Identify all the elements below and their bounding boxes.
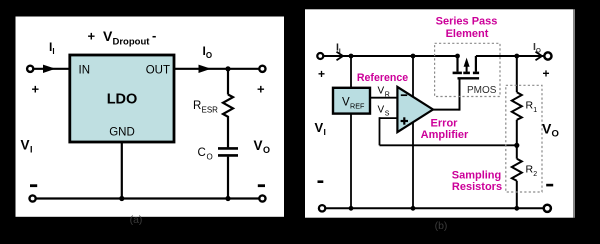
node amp supply junction	[411, 54, 416, 59]
sampling resistors dashed box	[506, 85, 542, 192]
label V_S	[378, 105, 390, 118]
wire input to LDO IN	[34, 68, 71, 70]
wire feedback V_S vertical behind amp	[412, 56, 414, 208]
resistor R2	[512, 159, 522, 181]
op-amp error amplifier	[397, 87, 433, 132]
svg-text:Dropout: Dropout	[113, 37, 151, 48]
svg-text:R: R	[526, 100, 534, 112]
amp - input mark	[401, 94, 407, 96]
svg-text:V: V	[378, 86, 385, 97]
svg-text:(b): (b)	[435, 220, 448, 232]
svg-text:+: +	[257, 82, 265, 97]
svg-text:+: +	[543, 67, 550, 81]
label V_I (b)	[315, 120, 326, 137]
series pass dashed box	[435, 43, 500, 96]
reference V_REF box	[333, 88, 370, 114]
label R_1	[526, 100, 538, 115]
node C_O junction	[225, 196, 230, 201]
svg-text:(a): (a)	[130, 214, 143, 226]
label - (right, a)	[258, 184, 265, 187]
ground terminal right (b)	[544, 205, 551, 212]
label V_O (b)	[542, 121, 559, 140]
panel (b) background	[305, 9, 573, 217]
label R_ESR	[193, 100, 218, 115]
node V_REF supply junction	[349, 54, 354, 59]
node amp ground junction	[411, 206, 416, 211]
amp + input mark	[401, 117, 408, 124]
node R2 ground junction	[514, 206, 519, 211]
svg-text:O: O	[207, 153, 213, 162]
label V_O (a)	[254, 138, 271, 155]
transistor PMOS Q1	[453, 56, 480, 78]
svg-text:Amplifier: Amplifier	[421, 129, 469, 141]
wire output node down to R1	[516, 56, 518, 92]
label I_I (b)	[336, 42, 341, 56]
ground terminal left (a)	[29, 195, 35, 201]
svg-text:O: O	[263, 145, 270, 155]
label V_Dropout	[88, 28, 157, 48]
output terminal (a)	[259, 66, 265, 72]
svg-text:+: +	[318, 67, 325, 81]
svg-text:S: S	[385, 111, 390, 118]
capacitor C_O	[218, 148, 238, 155]
svg-text:V: V	[542, 121, 552, 137]
svg-text:V: V	[315, 120, 324, 135]
svg-text:Resistors: Resistors	[452, 181, 502, 193]
svg-text:R: R	[526, 164, 534, 176]
label R_2	[526, 164, 538, 179]
svg-text:1: 1	[533, 107, 537, 114]
label I_I (a)	[49, 40, 55, 56]
input terminal (a)	[27, 66, 33, 72]
label C_O	[198, 147, 213, 162]
label I_O (a)	[203, 44, 213, 60]
svg-text:Error: Error	[431, 118, 459, 130]
node R1/R2 junction	[514, 143, 519, 148]
svg-text:Series Pass: Series Pass	[436, 16, 498, 28]
svg-text:V: V	[103, 28, 113, 44]
resistor R_ESR	[223, 95, 233, 119]
label I_O (b)	[533, 41, 541, 55]
wire amp output to gate	[433, 78, 460, 111]
label - (left, b)	[318, 180, 324, 183]
svg-text:V: V	[254, 138, 263, 153]
wire R_ESR to C_O	[227, 118, 229, 147]
svg-text:PMOS: PMOS	[467, 85, 497, 96]
label - (left, a)	[30, 184, 37, 187]
svg-text:V: V	[342, 97, 350, 109]
wire LDO OUT to output node	[174, 68, 259, 70]
svg-text:R: R	[385, 92, 390, 99]
svg-text:2: 2	[533, 171, 537, 178]
ground terminal left (b)	[319, 205, 325, 211]
resistor R1	[512, 92, 522, 120]
svg-text:IN: IN	[79, 65, 91, 77]
label Error Amplifier	[421, 118, 469, 141]
input rail (b)	[324, 55, 458, 57]
input terminal (b)	[317, 53, 323, 59]
label Sampling Resistors	[452, 170, 502, 194]
label V_R	[378, 86, 390, 99]
LDO block U1	[70, 55, 174, 142]
wire R1 to node	[516, 120, 518, 146]
svg-text:+: +	[88, 29, 96, 44]
svg-text:C: C	[198, 147, 206, 159]
svg-text:V: V	[21, 138, 30, 153]
label V_I (a)	[21, 138, 33, 155]
current arrow I_I (a)	[43, 65, 56, 73]
svg-text:Sampling: Sampling	[452, 170, 502, 182]
wire feedback down	[379, 117, 381, 145]
svg-text:Reference: Reference	[357, 72, 408, 84]
wire V_R	[370, 97, 400, 99]
node GND junction	[119, 196, 124, 201]
output terminal (b)	[544, 52, 551, 59]
ground rail (a)	[36, 197, 258, 199]
node PMOS source junction	[455, 54, 460, 59]
panel (a) background	[16, 17, 285, 217]
current arrow I_O (b)	[536, 52, 543, 60]
svg-text:OUT: OUT	[146, 65, 170, 77]
svg-text:-: -	[152, 28, 156, 43]
wire V_S into amp	[380, 117, 401, 119]
label - (right, b)	[546, 184, 553, 187]
svg-text:REF: REF	[350, 101, 365, 110]
wire V_REF box to ground rail	[350, 114, 352, 209]
node output junction (a)	[225, 66, 230, 71]
svg-text:I: I	[30, 145, 33, 155]
svg-text:LDO: LDO	[107, 91, 138, 107]
svg-text:ESR: ESR	[202, 106, 219, 115]
svg-text:Element: Element	[446, 28, 489, 40]
svg-text:+: +	[32, 82, 40, 97]
svg-text:O: O	[552, 129, 559, 140]
node V_REF ground junction	[349, 206, 354, 211]
wire R2 to ground rail	[516, 181, 518, 209]
output rail (b)	[476, 55, 544, 57]
wire rail to V_REF box	[350, 56, 352, 88]
ground terminal right (a)	[259, 195, 265, 201]
wire C_O to ground rail	[227, 157, 229, 199]
current arrow I_O (a)	[199, 65, 212, 73]
svg-text:GND: GND	[109, 127, 135, 139]
wire feedback horizontal to R1/R2 node	[380, 144, 517, 146]
svg-text:V: V	[378, 105, 385, 116]
svg-text:I: I	[324, 127, 326, 137]
panel (b) right edge line	[573, 9, 575, 217]
ground rail (b)	[326, 207, 543, 209]
wire output node down to R_ESR	[227, 69, 229, 95]
label Series Pass Element	[436, 16, 498, 40]
wire node to R2	[516, 145, 518, 158]
current arrow I_I (b)	[337, 52, 344, 60]
svg-text:R: R	[193, 100, 201, 112]
wire GND pin down	[121, 142, 123, 199]
node output junction (b)	[514, 54, 519, 59]
